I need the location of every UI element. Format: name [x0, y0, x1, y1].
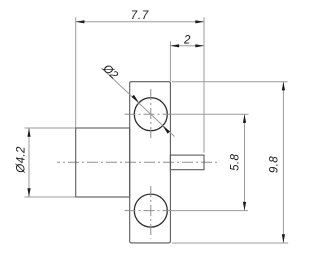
extension line left of dim 7.7 — [75, 17, 77, 127]
dimension line 9.8 — [282, 82, 284, 243]
arrowhead 2 right — [195, 44, 204, 47]
wire: main horizontal centerline — [57, 161, 218, 163]
arrowhead 5.8 top — [243, 114, 246, 123]
arrowhead 9.8 top — [282, 82, 285, 91]
dimension line 7.7 — [76, 21, 204, 23]
body (cylinder, left rectangle) — [76, 128, 130, 197]
svg-text:2: 2 — [183, 35, 191, 47]
svg-text:5.8: 5.8 — [230, 154, 242, 171]
extension line top of dim 5.8 — [171, 113, 249, 115]
dimension line 2 — [170, 45, 204, 47]
wire: top hole horizontal centerline — [125, 113, 172, 115]
hole top (circle) — [134, 98, 167, 131]
arrowhead Ø4.2 top — [27, 128, 30, 137]
arrowhead Ø2 upper — [132, 95, 139, 103]
wire: bottom hole horizontal centerline — [125, 210, 172, 212]
hole bottom (circle) — [134, 194, 167, 227]
extension line bottom of dim 9.8 — [172, 242, 288, 244]
arrowhead 5.8 bottom — [243, 202, 246, 211]
arrowhead 7.7 left — [76, 20, 85, 23]
extension line top of dim Ø4.2 — [25, 127, 76, 129]
dimension line 5.8 — [244, 114, 246, 210]
extension line bottom of dim Ø4.2 — [25, 196, 76, 198]
arrowhead 9.8 bottom — [282, 234, 285, 243]
arrowhead Ø2 lower — [163, 126, 170, 134]
wire: bottom hole vertical centerline — [150, 186, 152, 239]
svg-text:Ø4.2: Ø4.2 — [16, 146, 28, 174]
dimension line Ø4.2 — [28, 128, 30, 197]
svg-text:7.7: 7.7 — [131, 10, 149, 22]
extension line top of dim 9.8 — [172, 81, 288, 83]
svg-text:Ø2: Ø2 — [100, 62, 121, 82]
leader line for dim Ø2 — [102, 68, 175, 137]
wire: top hole vertical centerline — [150, 89, 152, 141]
flange plate — [130, 82, 171, 243]
arrowhead 2 left — [170, 44, 179, 47]
svg-text:9.8: 9.8 — [269, 156, 281, 173]
extension line bottom of dim 5.8 — [171, 210, 248, 212]
pin (right stub) — [170, 155, 204, 170]
arrowhead 7.7 right — [195, 20, 204, 23]
extension line right of dim 7.7 / dim 2 — [203, 17, 205, 153]
arrowhead Ø4.2 bottom — [27, 188, 30, 197]
extension line left of dim 2 — [169, 41, 171, 81]
